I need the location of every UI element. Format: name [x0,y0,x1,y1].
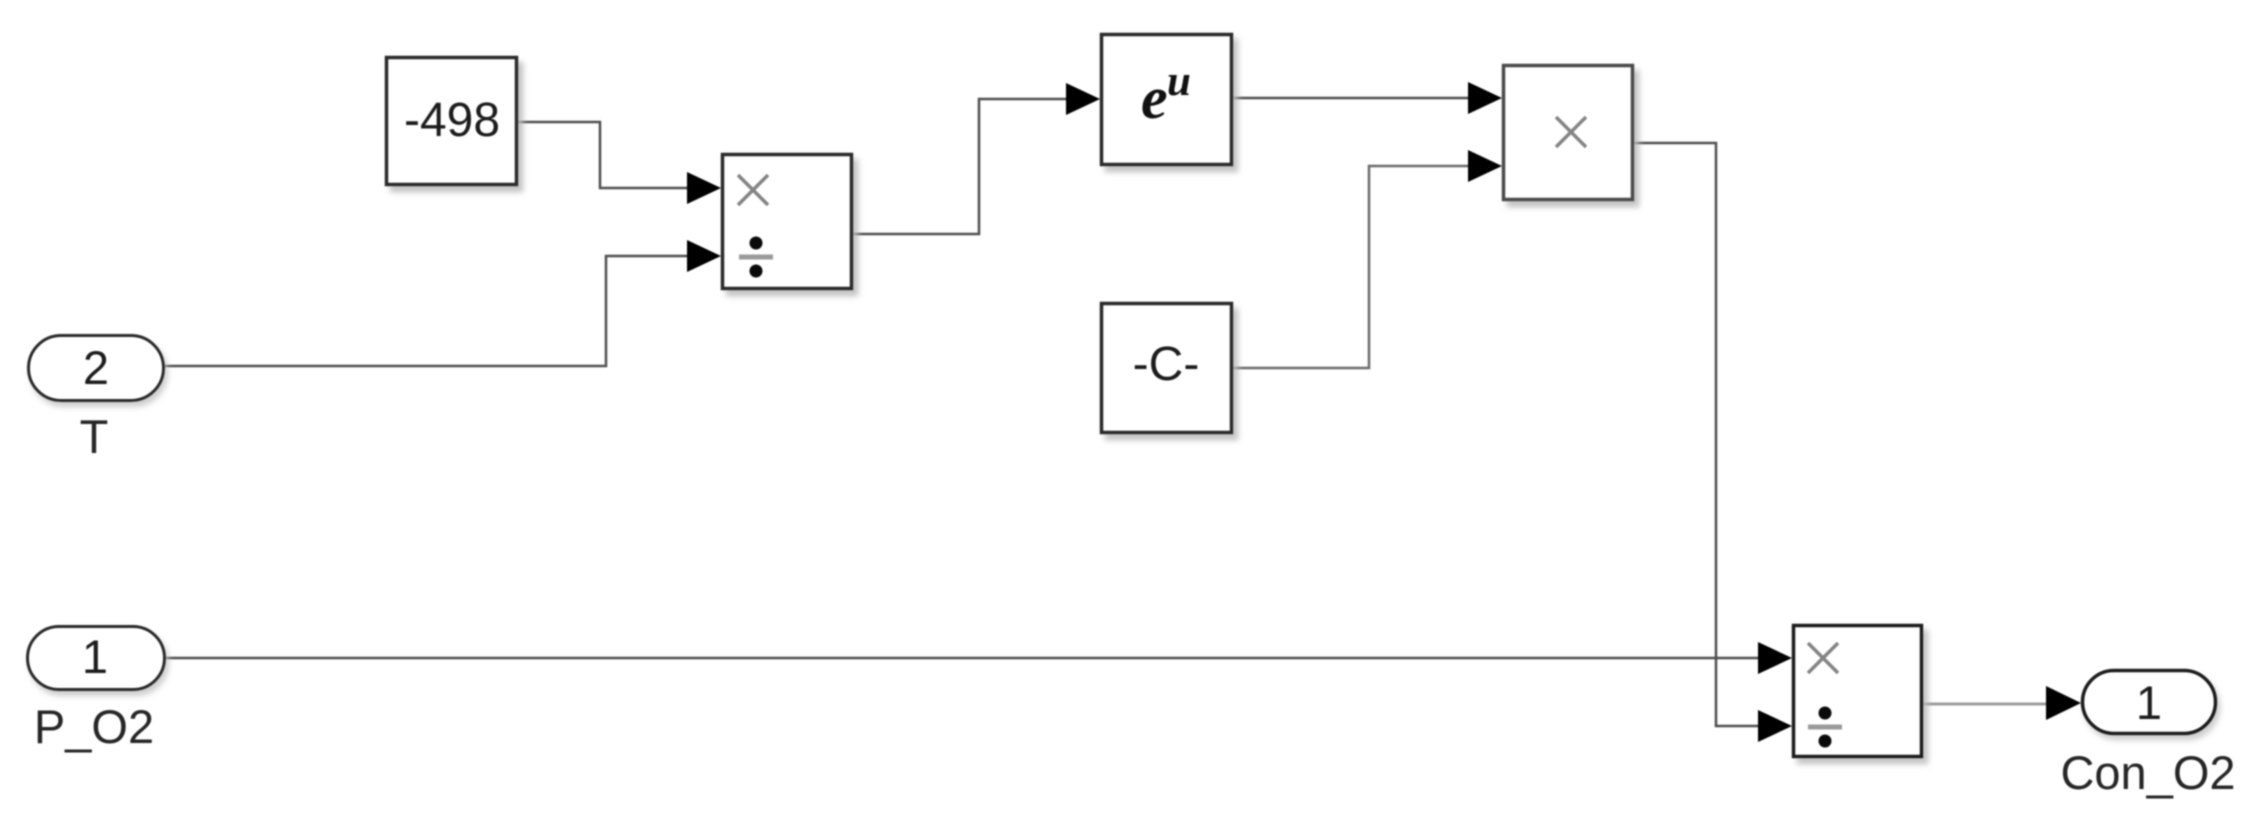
product block Product [1504,66,1633,200]
svg-text:2: 2 [83,341,109,394]
wire W8: Divide2 output to Outport Con_O2 [1923,703,2048,706]
label T [80,410,109,463]
wire W7: Inport P_O2 output to Divide2 input 1 [166,657,1760,660]
inport 1 (P_O2) [28,627,165,690]
outport 1 (Con_O2) [2083,671,2216,734]
svg-text:1: 1 [82,630,108,683]
wire W6: Product output to Divide2 input 2 [1634,143,1760,726]
svg-text:-C-: -C- [1133,338,1200,391]
svg-text:T: T [80,410,109,463]
svg-text:Con_O2: Con_O2 [2060,746,2235,799]
arrowhead into Exp block input [1066,83,1100,115]
label Con_O2 [2060,746,2235,799]
wire W5: Constant -C- output to Product input 2 [1233,166,1470,368]
wire W1: Constant -498 output to Divide1 input 1 [518,122,689,188]
svg-text:u: u [1167,58,1191,105]
wire W3: Divide1 output to Exp block input [853,99,1068,234]
constant block -498 [387,58,517,185]
label P_O2 [34,700,154,753]
divide block Divide2 [1794,626,1922,757]
inport 2 (T) [29,336,164,401]
arrowhead into Divide1 input 2 [687,240,721,272]
svg-text:1: 1 [2136,676,2162,729]
svg-text:-498: -498 [404,94,500,147]
divide block Divide1 [723,155,852,289]
arrowhead into Product input 1 [1468,82,1502,114]
constant block -C- [1102,304,1232,433]
arrowhead into Product input 2 [1468,150,1502,182]
arrowhead into Outport Con_O2 [2046,686,2081,720]
wire W2: Inport T output to Divide1 input 2 [165,256,689,366]
arrowhead into Divide1 input 1 [687,172,721,204]
svg-text:e: e [1141,65,1168,131]
arrowhead into Divide2 input 1 [1758,642,1792,674]
svg-text:P_O2: P_O2 [34,700,154,753]
wire W4: Exp block output to Product input 1 [1233,97,1470,100]
math function block Exp e^u [1102,35,1232,165]
arrowhead into Divide2 input 2 [1758,710,1792,742]
